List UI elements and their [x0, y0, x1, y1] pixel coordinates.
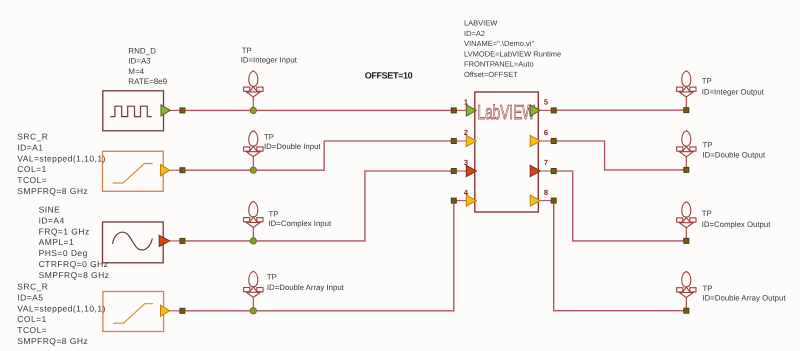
- svg-text:ID=Integer Output: ID=Integer Output: [702, 88, 765, 97]
- pin 7 triangle: [530, 165, 540, 176]
- node TP8: [684, 308, 689, 313]
- node TP6: [684, 167, 689, 172]
- svg-text:VINAME=".\Demo.vi": VINAME=".\Demo.vi": [464, 39, 534, 48]
- test point TP7 ID=Complex Output: [677, 202, 696, 241]
- svg-text:RND_D: RND_D: [128, 47, 156, 56]
- pin RND_D output (green): [161, 105, 170, 116]
- pin 8 triangle: [530, 195, 540, 206]
- wire row3 complex input: [185, 171, 452, 241]
- node TP7: [684, 238, 689, 243]
- svg-text:COL=1: COL=1: [17, 314, 46, 324]
- pin 1 stub: [456, 109, 466, 111]
- test point TP1 ID=Integer Input: [244, 71, 263, 110]
- source RND_D A3: [103, 91, 181, 131]
- svg-text:ID=A4: ID=A4: [39, 215, 65, 225]
- svg-text:SRC_R: SRC_R: [17, 132, 48, 142]
- svg-text:LabVIEW: LabVIEW: [478, 102, 536, 124]
- wire row4 double array input: [185, 203, 454, 311]
- pin 5 triangle: [530, 105, 540, 116]
- junction TP2: [250, 167, 256, 173]
- svg-text:LABVIEW: LABVIEW: [464, 19, 498, 28]
- svg-text:ID=A1: ID=A1: [17, 142, 43, 152]
- svg-text:FRQ=1 GHz: FRQ=1 GHz: [39, 226, 90, 236]
- svg-text:6: 6: [544, 128, 548, 137]
- wire pin8 to double array output: [554, 203, 684, 311]
- svg-text:SMPFRQ=8 GHz: SMPFRQ=8 GHz: [17, 336, 88, 346]
- node pin 1: [451, 108, 456, 113]
- svg-text:ID=Double Array Output: ID=Double Array Output: [703, 294, 787, 303]
- test point TP2 ID=Double Input: [244, 131, 263, 170]
- pin 4 triangle: [466, 195, 476, 206]
- pin 5 stub: [540, 109, 551, 111]
- node RND_D output: [180, 108, 185, 113]
- source SRC_R A1: [103, 151, 164, 191]
- pin 6 triangle: [530, 135, 540, 146]
- svg-text:ID=Complex Output: ID=Complex Output: [702, 220, 772, 229]
- svg-text:ID=A5: ID=A5: [17, 292, 43, 302]
- svg-text:ID=Double Input: ID=Double Input: [264, 142, 321, 151]
- node pin 5: [551, 108, 556, 113]
- wire pin6 to double output: [556, 141, 684, 170]
- svg-text:TCOL=: TCOL=: [17, 325, 47, 335]
- pin 6 stub: [540, 140, 551, 142]
- svg-text:RATE=8e9: RATE=8e9: [128, 77, 167, 86]
- svg-text:COL=1: COL=1: [17, 164, 46, 174]
- node pin 4: [451, 198, 456, 203]
- svg-text:TCOL=: TCOL=: [17, 175, 47, 185]
- test point TP6 ID=Double Output: [677, 131, 696, 170]
- svg-text:TP: TP: [702, 209, 712, 218]
- pin 3 stub: [456, 170, 466, 172]
- pin 2 triangle: [466, 135, 476, 146]
- LabVIEW block U A2: [475, 92, 539, 212]
- junction TP1: [250, 107, 256, 113]
- node pin 3: [451, 169, 456, 174]
- pin 7 stub: [540, 170, 551, 172]
- svg-text:VAL=stepped(1,10,1): VAL=stepped(1,10,1): [17, 303, 106, 313]
- svg-text:ID=A2: ID=A2: [464, 29, 485, 38]
- pin 2 stub: [456, 140, 466, 142]
- node SRC_R A1 output: [180, 168, 185, 173]
- svg-text:FRONTPANEL=Auto: FRONTPANEL=Auto: [464, 60, 534, 69]
- svg-text:OFFSET=10: OFFSET=10: [365, 71, 413, 81]
- svg-text:SMPFRQ=8 GHz: SMPFRQ=8 GHz: [17, 186, 88, 196]
- svg-text:PHS=0 Deg: PHS=0 Deg: [39, 248, 88, 258]
- source SINE A4: [103, 222, 181, 263]
- wire row2 double input: [185, 141, 452, 170]
- svg-text:ID=A3: ID=A3: [128, 57, 151, 66]
- node SRC_R A5 output: [180, 308, 185, 313]
- wire pin7 to complex output: [556, 171, 684, 241]
- svg-text:AMPL=1: AMPL=1: [39, 237, 75, 247]
- test point TP4 ID=Double Array Input: [244, 271, 263, 310]
- pin 3 triangle: [466, 165, 476, 176]
- svg-text:SRC_R: SRC_R: [17, 282, 48, 292]
- svg-text:Offset=OFFSET: Offset=OFFSET: [464, 70, 518, 79]
- svg-text:ID=Double Output: ID=Double Output: [703, 151, 766, 160]
- test point TP3 ID=Complex Input: [244, 201, 263, 240]
- wire pin5 to integer output: [556, 109, 684, 111]
- svg-text:SINE: SINE: [39, 205, 61, 215]
- node pin 2: [451, 139, 456, 144]
- wire row1 integer input: [185, 109, 452, 111]
- svg-text:ID=Double Array Input: ID=Double Array Input: [267, 283, 345, 292]
- svg-text:TP: TP: [269, 210, 279, 219]
- svg-text:CTRFRQ=0 GHz: CTRFRQ=0 GHz: [39, 259, 109, 269]
- svg-text:LVMODE=LabVIEW Runtime: LVMODE=LabVIEW Runtime: [464, 49, 561, 58]
- svg-text:ID=Integer Input: ID=Integer Input: [241, 56, 298, 65]
- node SINE output: [180, 238, 185, 243]
- pin 4 stub: [456, 200, 466, 202]
- node pin 8: [551, 198, 556, 203]
- pin 8 stub: [540, 200, 551, 202]
- test point TP8 ID=Double Array Output: [677, 272, 696, 311]
- svg-text:4: 4: [464, 188, 469, 197]
- svg-text:1: 1: [464, 98, 468, 107]
- junction TP4: [250, 308, 256, 314]
- svg-text:SMPFRQ=8 GHz: SMPFRQ=8 GHz: [39, 270, 110, 280]
- svg-text:3: 3: [464, 158, 468, 167]
- svg-text:TP: TP: [703, 141, 713, 150]
- svg-text:VAL=stepped(1,10,1): VAL=stepped(1,10,1): [17, 153, 106, 163]
- test point TP5 ID=Integer Output: [677, 71, 696, 110]
- svg-text:7: 7: [544, 158, 548, 167]
- node pin 6: [551, 139, 556, 144]
- svg-text:ID=Complex Input: ID=Complex Input: [269, 219, 332, 228]
- svg-text:TP: TP: [703, 284, 713, 293]
- svg-text:TP: TP: [267, 273, 277, 282]
- node pin 7: [551, 169, 556, 174]
- pin SRC_R A1 output (yellow): [161, 165, 170, 176]
- LabVIEW logo: [478, 102, 536, 124]
- node TP5: [684, 108, 689, 113]
- svg-text:8: 8: [544, 188, 548, 197]
- svg-text:5: 5: [544, 98, 548, 107]
- pin SINE output (red): [159, 235, 170, 246]
- svg-text:TP: TP: [242, 46, 252, 55]
- svg-text:2: 2: [464, 128, 468, 137]
- junction TP3: [250, 238, 256, 244]
- pin 1 triangle: [466, 105, 476, 116]
- pin SRC_R A5 output (yellow): [161, 305, 170, 316]
- source SRC_R A5: [103, 292, 164, 332]
- svg-text:TP: TP: [702, 76, 712, 85]
- svg-text:TP: TP: [264, 133, 274, 142]
- svg-text:M=4: M=4: [128, 67, 144, 76]
